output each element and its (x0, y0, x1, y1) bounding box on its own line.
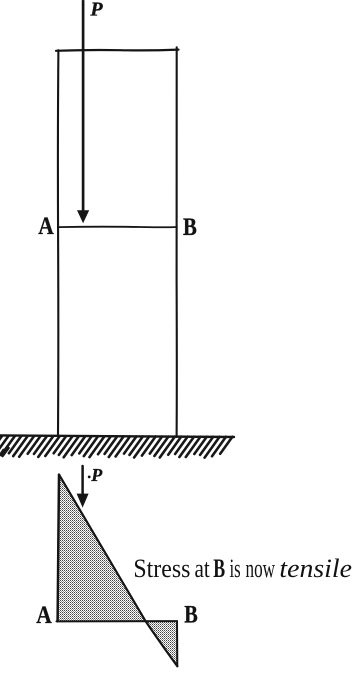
svg-text:A: A (38, 213, 54, 240)
svg-text:is: is (230, 553, 241, 583)
svg-text:at: at (195, 553, 211, 583)
svg-text:A: A (36, 602, 52, 629)
svg-text:P: P (90, 465, 103, 485)
svg-text:Stress: Stress (133, 553, 190, 583)
svg-text:B: B (183, 214, 197, 241)
svg-text:B: B (213, 553, 225, 583)
svg-text:now: now (246, 553, 276, 583)
svg-text:B: B (184, 602, 198, 629)
svg-text:P: P (89, 0, 103, 21)
svg-text:tensile: tensile (279, 553, 352, 583)
